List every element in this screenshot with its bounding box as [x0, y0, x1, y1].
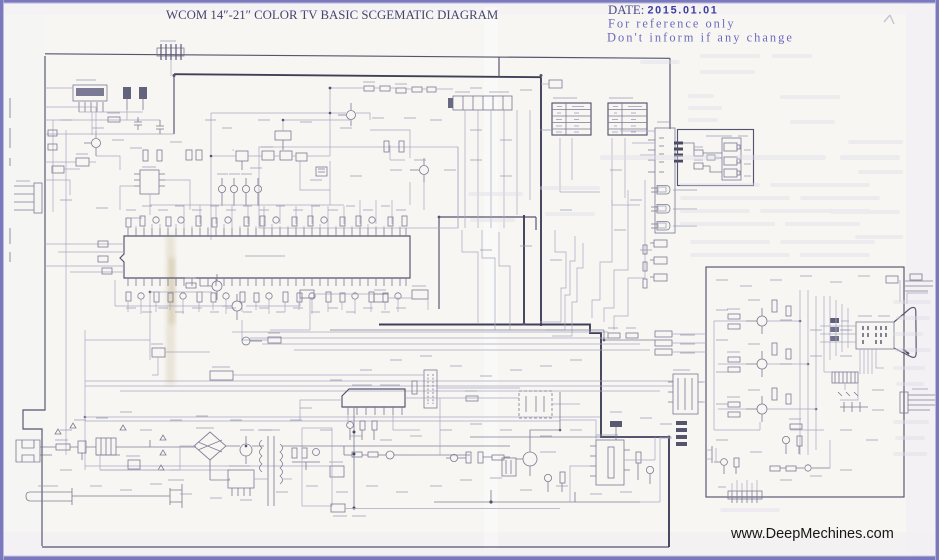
long vertical wire x66	[65, 130, 67, 455]
wire fan from IF box to IC top pins	[184, 200, 392, 224]
wire vertical x330	[329, 113, 331, 156]
heavy bus horizontal mid	[379, 325, 669, 438]
decoupling components row above U001	[126, 216, 407, 227]
bus lines under heavy line heading right	[232, 332, 650, 350]
small caps on left bus	[48, 130, 57, 150]
wire sound line	[314, 294, 428, 310]
IC U001 pins bottom row	[128, 278, 406, 286]
vertical return x354	[353, 407, 355, 508]
AV jack AUDIO-R	[724, 169, 751, 177]
scattered value-label smudges lower section	[60, 356, 652, 500]
left margin dashed edge marks	[9, 98, 11, 262]
AV jack area box	[722, 138, 741, 180]
pencil check mark top right	[884, 15, 894, 24]
transistor Q303	[242, 337, 262, 345]
error amp components	[636, 452, 654, 484]
IF box bottom rail	[150, 204, 344, 206]
ground ticks under component row	[128, 299, 398, 314]
crystal X102	[316, 167, 327, 176]
tuner unit TU001	[448, 92, 512, 110]
wire IF chain y156	[211, 155, 330, 157]
capacitor C110	[134, 117, 142, 130]
AV jack VIDEO	[724, 143, 751, 151]
red video amp Q901	[746, 308, 767, 334]
small box SIF	[232, 149, 234, 151]
scan shading top	[3, 3, 936, 15]
ABL components row	[770, 465, 830, 471]
right external connector 4-row comb	[900, 389, 935, 413]
small connector bars stack	[650, 240, 667, 281]
wires secondary power rails	[282, 446, 470, 455]
box FB301	[151, 344, 165, 357]
base resistors R921 R922	[727, 352, 740, 372]
svg-text:DATE: 2015.01.01: DATE: 2015.01.01	[608, 3, 719, 17]
spark gaps row	[838, 392, 868, 412]
sound out small boxes	[374, 286, 428, 302]
snubber components cluster	[292, 448, 320, 470]
wire B001 outputs	[79, 110, 160, 135]
svg-text:www.DeepMechines.com: www.DeepMechines.com	[730, 526, 894, 542]
blue video amp Q903	[746, 396, 767, 422]
R OUT bar	[655, 331, 695, 337]
collector load resistors	[772, 300, 777, 400]
optocoupler U601	[329, 462, 344, 477]
scan shading bottom strip	[3, 532, 936, 556]
speaker connector bars	[660, 421, 687, 446]
top-right external connector comb	[886, 274, 933, 291]
long horizontals mid-right	[85, 381, 673, 421]
svg-text:For reference only: For reference only	[608, 17, 736, 31]
AV jack AUDIO-L	[724, 157, 751, 165]
secondary regulator IC U602	[590, 435, 630, 485]
table CVBS	[608, 98, 647, 135]
staircase bus line 4	[540, 230, 566, 322]
cap C115 cluster under B001	[156, 120, 164, 134]
ground bus bottom	[434, 490, 640, 502]
table AF(Pin42)	[552, 98, 591, 135]
wire IF line y113	[211, 113, 370, 120]
electrolytic C105	[139, 87, 147, 110]
long vertical wire x85	[84, 330, 86, 470]
board bottom stubs	[732, 480, 757, 491]
wires linking board to CRT	[844, 383, 846, 390]
S-correction caps	[544, 472, 565, 492]
degauss thermistor TH601	[126, 456, 140, 469]
resistor R142	[399, 141, 404, 152]
video det transistor Q103	[410, 158, 429, 182]
CRT neck board edge connector	[832, 372, 858, 383]
trap L101	[296, 153, 307, 161]
wire vertical x499 top	[498, 57, 500, 77]
green video amp Q902	[746, 351, 767, 377]
resistors feeding bars	[643, 245, 647, 288]
CRT drive vertical wires	[800, 290, 848, 455]
CRT socket small components	[830, 318, 849, 341]
secondary rectifier cluster	[344, 451, 410, 459]
connector P101 top edge pins	[157, 41, 184, 60]
resistor R305	[268, 333, 281, 343]
heavy vertical at x439	[438, 217, 440, 309]
heavy bus vertical left	[173, 74, 175, 134]
wire main to column	[620, 131, 655, 155]
SMPS transformer T601	[258, 430, 283, 506]
fuse F601	[55, 440, 70, 450]
staircase bus line 3	[499, 232, 510, 330]
bus bundle going right to CRT board	[330, 330, 655, 340]
audio amp transistor Q301	[200, 274, 222, 300]
small box y292	[300, 290, 314, 298]
small box X101	[52, 166, 64, 173]
electrolytic cap bank C121-C124	[217, 174, 262, 206]
AC inlet plug J601	[16, 440, 52, 462]
scan shading right margin	[906, 3, 936, 557]
tuner AGC transistor Q101	[84, 131, 101, 156]
resistor R135	[427, 87, 436, 92]
choke L601	[96, 438, 116, 455]
wires AC path	[52, 440, 196, 455]
left-of-IC small components	[98, 241, 112, 274]
resistor R402	[465, 391, 478, 401]
power section boundary box	[302, 428, 332, 506]
resistor R134	[412, 87, 422, 92]
junction dots x354	[353, 431, 356, 510]
resistor pair near RGB bars	[608, 328, 638, 338]
resistor R133	[395, 84, 407, 93]
wires in IF box	[283, 120, 424, 210]
scan shading left margin	[3, 3, 45, 557]
G2 capacitor cluster	[782, 436, 802, 454]
staircase bus line 8	[604, 190, 628, 322]
peaking coils	[786, 306, 791, 404]
focus divider wires	[714, 372, 858, 430]
heavy horizontal y217	[439, 217, 536, 230]
scattered value-label smudges CRT board	[716, 276, 884, 480]
bottom board connector comb	[718, 487, 762, 503]
audio transistor Q302	[222, 294, 242, 320]
AGC resistor chain R131	[363, 82, 375, 91]
plug P202 VIDEO IN	[651, 205, 697, 214]
wires under tables	[560, 138, 640, 205]
resistor R132	[380, 86, 390, 91]
page border frame (purple)	[0, 0, 939, 3]
flyback/driver transformer T201	[668, 370, 703, 414]
vertical IC U301 LA78040	[342, 385, 405, 415]
dashed safety box	[519, 391, 552, 418]
IF amp IC U101	[134, 167, 165, 194]
flyback primary wire	[530, 392, 560, 444]
left bus vertical x53	[52, 120, 54, 212]
CRT drive horizontals	[714, 321, 856, 430]
CRT socket	[856, 316, 894, 349]
wires from top pins to components	[128, 224, 400, 228]
components row below U001	[126, 292, 401, 302]
dark component above U602	[610, 421, 622, 440]
main frame bottom line	[42, 546, 669, 548]
IF section outline box	[259, 147, 458, 228]
bottom light rail	[345, 508, 560, 510]
plug P201 SVIDEO	[651, 186, 697, 195]
plug P203 VIDEO OUT	[651, 222, 697, 231]
base resistors R911 R912	[727, 309, 740, 329]
base resistors R931 R932	[727, 397, 740, 417]
G OUT bar	[655, 340, 695, 346]
ceramic filter CF101	[186, 150, 202, 160]
B+ rail wires	[470, 437, 669, 446]
component value labels below U001 (illegible)	[126, 308, 406, 312]
small box AFT	[275, 131, 291, 150]
wire tuner feed	[170, 60, 172, 76]
resistor R311 vertical	[412, 381, 417, 394]
wires audio section	[85, 280, 330, 470]
resistor R301	[185, 278, 196, 288]
staircase bus line 5	[545, 236, 575, 330]
connector pins to AV board (dark)	[674, 142, 683, 163]
resistor R115	[157, 150, 162, 161]
SAW filter Z101	[261, 147, 274, 160]
wires IF strip left	[45, 88, 174, 195]
socket return verticals	[860, 349, 884, 374]
connector box P402	[331, 504, 366, 516]
small box near top bus	[541, 80, 562, 88]
IC U001 pins top row	[128, 228, 406, 236]
B OUT bar	[655, 349, 695, 355]
IF transformer box T101	[236, 151, 248, 170]
small box SAW101	[76, 154, 89, 166]
resistor R109	[107, 113, 120, 122]
main filter cap C601	[240, 430, 254, 464]
bus into CRT board left	[672, 334, 706, 402]
hot driver transformer T401	[502, 458, 516, 476]
CRT board outline	[706, 267, 904, 497]
heavy ground loop right	[668, 437, 670, 547]
vertical yoke return components	[347, 421, 377, 440]
component value labels above U001 (illegible)	[126, 206, 406, 210]
CRT anode lead	[900, 280, 928, 304]
wire bus fanning left from IC to frame	[45, 244, 124, 272]
IF input block B001	[73, 80, 107, 112]
staircase bus line 9	[614, 180, 645, 330]
svg-text:WCOM 14″-21″ COLOR TV BASIC SC: WCOM 14″-21″ COLOR TV BASIC SCGEMATIC DI…	[166, 8, 498, 22]
scattered value-label smudges top section	[60, 88, 652, 260]
staircase bus line 2	[482, 230, 495, 330]
left edge connector CN_AV pins	[14, 181, 42, 213]
resistor R140	[384, 141, 389, 152]
main frame right drop at x670	[669, 58, 671, 129]
main frame left vertical	[23, 56, 45, 546]
vertical IF transformer T302	[424, 370, 437, 408]
HOT transistor Q402	[516, 444, 556, 476]
heavy bus vertical right long	[540, 77, 542, 326]
heavy vertical x524	[523, 215, 525, 324]
primary ground bus	[100, 446, 292, 479]
AV board internal components	[683, 143, 722, 172]
heater resistor R941	[789, 419, 802, 429]
wire driver stage	[440, 398, 580, 455]
main frame top line	[45, 54, 670, 59]
svg-text:Don't inform if any change: Don't inform if any change	[607, 31, 794, 45]
wires bridge to cap	[210, 446, 264, 480]
staircase bus line 1	[462, 230, 478, 324]
AC power cord	[26, 486, 170, 505]
tuner output verticals to IC	[465, 110, 530, 228]
feedback wires	[560, 420, 655, 502]
IC U001 TDA8873 body	[120, 236, 410, 278]
transistor Q102 IF amp	[338, 103, 356, 126]
bottom-left board components	[714, 458, 739, 474]
wire AGC chain	[330, 88, 453, 113]
wire heater run	[829, 440, 831, 468]
wires vertical section	[300, 398, 440, 430]
board edge connector CN201	[648, 122, 675, 233]
wires around U101	[120, 180, 190, 215]
base drive components	[446, 452, 510, 463]
CRT bell	[894, 307, 916, 357]
long return wire bottom	[640, 437, 660, 502]
staircase bus line 7 (right outer)	[592, 200, 612, 318]
faint stain column left-center	[166, 235, 175, 385]
staircase bus line 6	[552, 243, 583, 336]
electrolytic C103	[123, 87, 131, 110]
box B302	[210, 367, 233, 380]
SAW filter Z102	[280, 151, 292, 160]
heavy bus top line	[174, 74, 541, 77]
switching IC STR601	[228, 466, 254, 496]
warning triangle marks	[55, 423, 166, 470]
resistor R112	[143, 150, 148, 161]
nested bus rectangle outer	[211, 113, 458, 240]
faint vertical crease	[484, 7, 498, 549]
bridge rectifier D601	[194, 428, 226, 460]
AV board outline	[678, 130, 754, 186]
junction dot bottom bus	[489, 500, 492, 503]
line filter capacitor CX601	[78, 441, 86, 460]
bracket connector left of CRT board	[706, 446, 716, 463]
degauss coil connector	[168, 480, 184, 508]
junction dots on buses	[84, 74, 818, 447]
wires lower mid	[270, 298, 520, 388]
